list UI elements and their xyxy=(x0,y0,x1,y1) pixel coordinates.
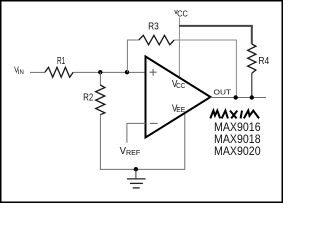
svg-text:CC: CC xyxy=(176,83,185,90)
resistor R4 xyxy=(248,44,270,73)
power VCC xyxy=(174,9,188,19)
wire xyxy=(99,72,101,85)
ground xyxy=(127,169,146,188)
wire output xyxy=(211,97,267,99)
wire xyxy=(73,71,145,73)
node junction A xyxy=(98,70,102,74)
svg-text:R3: R3 xyxy=(148,21,159,32)
svg-text:OUT: OUT xyxy=(214,88,232,97)
svg-text:IN: IN xyxy=(18,69,24,76)
wire VCC rail xyxy=(179,26,252,44)
svg-text:CC: CC xyxy=(177,9,188,19)
op-amp U1 xyxy=(146,57,211,138)
svg-text:R4: R4 xyxy=(258,56,269,67)
svg-text:REF: REF xyxy=(126,150,140,157)
svg-text:R2: R2 xyxy=(83,92,93,103)
node junction B xyxy=(125,70,129,74)
node junction feedback xyxy=(234,95,238,99)
svg-text:EE: EE xyxy=(176,107,185,114)
resistor R3 xyxy=(139,21,174,44)
svg-text:MAX9020: MAX9020 xyxy=(214,144,261,158)
node VIN xyxy=(14,65,24,77)
logo MAXIM xyxy=(210,111,259,119)
svg-text:R1: R1 xyxy=(57,56,65,67)
wire xyxy=(100,112,184,169)
node VREF xyxy=(120,145,141,157)
wire xyxy=(127,123,146,142)
wire xyxy=(127,40,138,72)
resistor R1 xyxy=(45,56,73,77)
node junction R4 xyxy=(250,95,254,99)
wire xyxy=(178,18,180,78)
wire xyxy=(174,40,236,98)
node ground junction xyxy=(134,167,138,171)
resistor R2 xyxy=(83,85,105,115)
wire xyxy=(30,71,45,73)
wire xyxy=(251,73,253,97)
